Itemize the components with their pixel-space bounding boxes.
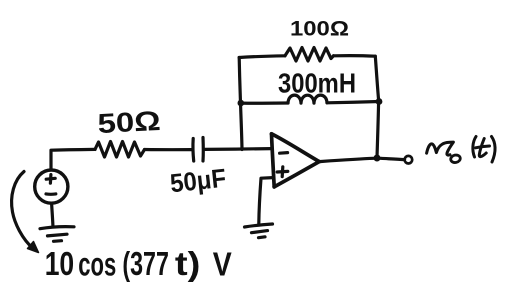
svg-text:50μF: 50μF — [169, 163, 228, 199]
junction dot (right inductor tap) — [376, 98, 383, 105]
op-amp — [272, 134, 320, 187]
svg-text:100Ω: 100Ω — [290, 17, 349, 41]
svg-text:300mH: 300mH — [278, 68, 356, 99]
label 10 cos (377 t) V — [45, 245, 232, 283]
wire: source bottom lead — [52, 203, 53, 225]
junction dot (output node) — [374, 155, 381, 162]
wire: feedback loop right vertical (top) — [375, 56, 378, 101]
resistor 100Ω (feedback) — [285, 48, 334, 62]
wire: op-amp output — [319, 158, 373, 161]
capacitor 50μF — [193, 138, 203, 162]
svg-text:cos: cos — [78, 246, 116, 283]
wire: inductor branch left segment — [241, 101, 288, 104]
svg-text:50Ω: 50Ω — [97, 105, 162, 139]
wire: output node to terminal — [381, 158, 405, 159]
voltage source — [35, 170, 68, 203]
annotation arrow (source value callout) — [12, 172, 39, 253]
label 50μF — [169, 163, 228, 199]
wire: feedback top-right segment — [334, 54, 376, 58]
resistor 50Ω — [95, 142, 145, 158]
junction dot (left inductor tap) — [238, 100, 245, 107]
svg-text:t): t) — [175, 245, 201, 282]
wire: capacitor to op-amp input — [205, 147, 271, 151]
svg-text:(377: (377 — [122, 245, 168, 282]
wire: inductor branch right segment — [327, 102, 379, 103]
wire: source top lead — [51, 149, 95, 169]
wire: resistor to capacitor — [145, 148, 192, 151]
svg-text:V: V — [213, 246, 232, 283]
label vo(t) — [427, 137, 495, 164]
terminal vo (open circle) — [405, 156, 413, 164]
wire: op-amp noninverting input to ground — [259, 178, 273, 224]
wire: feedback loop left vertical — [239, 58, 242, 150]
inductor 300mH (feedback) — [288, 95, 327, 103]
wire: feedback top-left segment — [239, 56, 285, 58]
label 300mH — [278, 68, 356, 99]
label 50Ω — [97, 105, 162, 139]
wire: feedback loop right vertical (bottom) — [377, 102, 379, 159]
ground (op-amp) — [245, 224, 273, 238]
ground (source) — [40, 227, 74, 242]
label 100Ω — [290, 17, 349, 41]
svg-text:10: 10 — [45, 245, 74, 282]
